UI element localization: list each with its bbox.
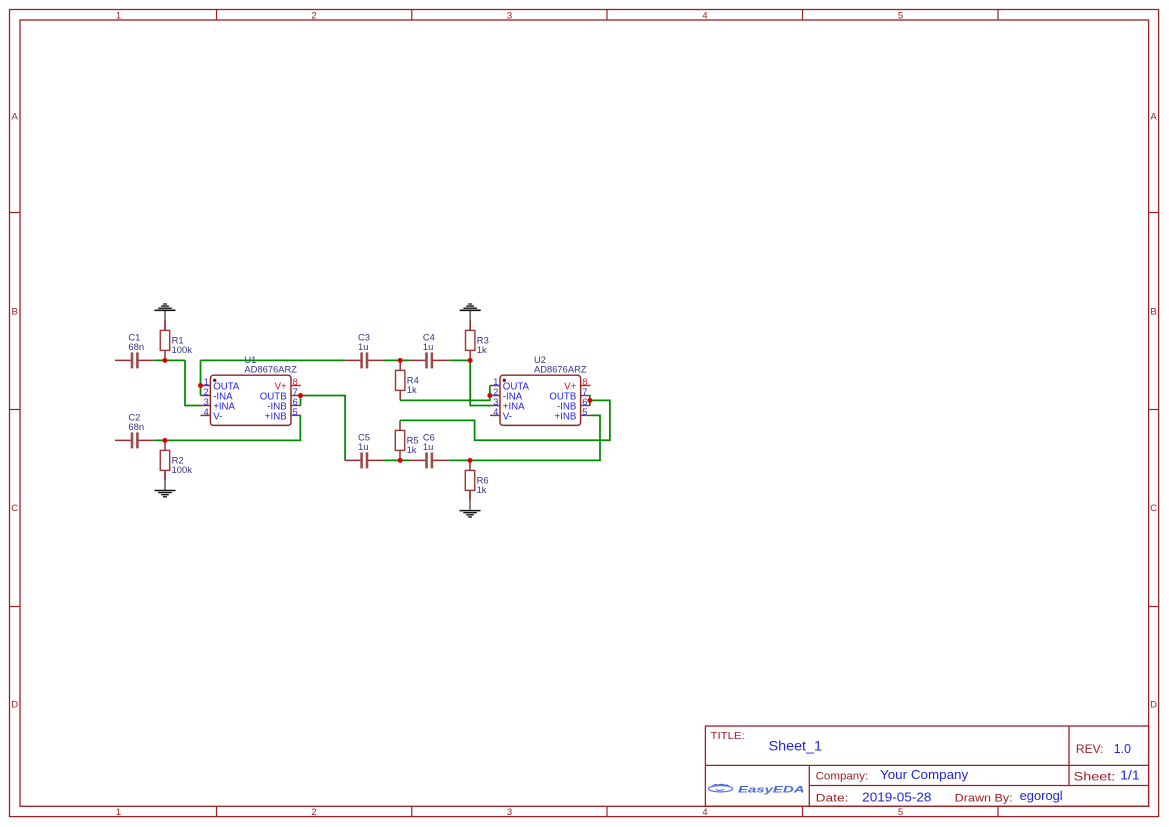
svg-text:REV:: REV: — [1076, 744, 1104, 756]
svg-text:1k: 1k — [407, 444, 417, 455]
row ticks left — [10, 213, 21, 607]
svg-text:Sheet:: Sheet: — [1074, 771, 1116, 783]
resistor R4 — [396, 360, 419, 400]
svg-text:1u: 1u — [423, 441, 433, 452]
wire R3 node to U2 +INA — [470, 360, 491, 405]
svg-text:AD8676ARZ: AD8676ARZ — [244, 364, 297, 375]
ground above R3 — [460, 304, 480, 330]
svg-text:1: 1 — [204, 377, 209, 387]
svg-text:D: D — [11, 699, 18, 710]
op-amp U1 — [201, 354, 301, 425]
ground above R1 — [155, 304, 175, 330]
svg-text:8: 8 — [293, 377, 298, 387]
svg-text:Your Company: Your Company — [880, 768, 969, 782]
junction C5/C6/R5 node — [398, 458, 403, 463]
svg-text:C: C — [11, 503, 18, 514]
wire U2 OUTB to -INB tie — [589, 396, 591, 406]
svg-text:2: 2 — [311, 10, 316, 21]
svg-text:1u: 1u — [358, 441, 368, 452]
wire C2 node to U1 +INB — [154, 415, 300, 440]
wire R6 node to U2 +INB — [470, 415, 600, 460]
junction C2/R2 node — [162, 438, 167, 443]
svg-text:8: 8 — [582, 377, 587, 387]
wire U1 OUTB down to C5 — [301, 396, 346, 461]
svg-text:1: 1 — [116, 807, 121, 818]
column ticks bottom — [217, 806, 999, 816]
wire C3 to C4 — [384, 359, 410, 361]
row labels right — [1150, 111, 1157, 710]
svg-text:68n: 68n — [128, 421, 144, 432]
wire C5 to C6 — [384, 459, 410, 461]
junction U2 pin2 — [487, 393, 492, 398]
svg-text:68n: 68n — [128, 341, 144, 352]
svg-text:5: 5 — [582, 407, 587, 417]
svg-text:V-: V- — [503, 412, 512, 423]
svg-text:1.0: 1.0 — [1114, 742, 1131, 756]
op-amp U2 — [490, 354, 590, 425]
svg-text:A: A — [1150, 111, 1157, 122]
svg-text:5: 5 — [293, 407, 298, 417]
svg-text:7: 7 — [582, 387, 587, 397]
junction U2 right feedback node — [587, 398, 592, 403]
resistor R2 — [160, 440, 192, 480]
svg-text:B: B — [1150, 306, 1156, 317]
svg-text:+INB: +INB — [265, 412, 287, 423]
svg-text:2: 2 — [204, 387, 209, 397]
resistor R3 — [466, 320, 489, 360]
svg-text:Company:: Company: — [816, 770, 869, 782]
svg-text:3: 3 — [204, 397, 209, 407]
wire C1 to R1 junction / input node — [154, 359, 185, 361]
column labels top — [116, 10, 903, 21]
svg-text:1/1: 1/1 — [1120, 769, 1140, 783]
svg-text:2: 2 — [493, 387, 498, 397]
junction C3/C4/R4 node — [398, 358, 403, 363]
svg-text:1k: 1k — [477, 344, 487, 355]
svg-text:V-: V- — [213, 412, 222, 423]
wire U1 OUTB to -INB tie — [300, 396, 302, 406]
svg-text:1: 1 — [116, 10, 121, 21]
capacitor C5 — [345, 432, 384, 469]
svg-text:AD8676ARZ: AD8676ARZ — [534, 364, 587, 375]
svg-text:4: 4 — [702, 807, 707, 818]
svg-text:D: D — [1150, 699, 1157, 710]
capacitor C3 — [345, 332, 384, 369]
capacitor C1 — [115, 332, 154, 369]
svg-text:2: 2 — [311, 807, 316, 818]
svg-text:7: 7 — [293, 387, 298, 397]
column labels bottom — [116, 807, 903, 818]
title block frame — [705, 726, 1148, 806]
svg-text:6: 6 — [293, 397, 298, 407]
svg-text:1k: 1k — [407, 384, 417, 395]
column ticks top — [217, 10, 999, 21]
svg-text:1: 1 — [493, 377, 498, 387]
svg-text:1u: 1u — [358, 341, 368, 352]
svg-text:Sheet_1: Sheet_1 — [769, 738, 823, 754]
wire R4 to U2 OUTA/-INA tie — [400, 386, 490, 401]
wire R5 to U2 OUTB/-INB tie — [400, 400, 610, 440]
svg-text:4: 4 — [204, 407, 209, 417]
svg-text:6: 6 — [582, 397, 587, 407]
svg-text:B: B — [12, 306, 18, 317]
svg-text:1u: 1u — [423, 341, 433, 352]
svg-text:egorogl: egorogl — [1020, 788, 1063, 803]
wire C4 to R3 node — [449, 359, 470, 361]
svg-text:5: 5 — [898, 10, 903, 21]
capacitor C6 — [410, 432, 449, 469]
capacitor C2 — [115, 412, 154, 449]
wire U1 OUTA to -INA tie — [200, 360, 202, 395]
resistor R1 — [160, 320, 192, 360]
ground below R6 — [460, 491, 480, 517]
row ticks right — [1149, 213, 1159, 607]
wire C6 to R6 node — [449, 459, 470, 461]
svg-text:3: 3 — [507, 10, 512, 21]
resistor R5 — [395, 420, 418, 460]
svg-text:C: C — [1150, 503, 1157, 514]
svg-text:5: 5 — [898, 807, 903, 818]
junction C6/R6 node — [468, 458, 473, 463]
svg-text:3: 3 — [507, 807, 512, 818]
svg-text:100k: 100k — [172, 344, 193, 355]
resistor R6 — [465, 460, 488, 500]
svg-text:+INB: +INB — [554, 412, 576, 423]
svg-text:TITLE:: TITLE: — [711, 731, 745, 742]
svg-text:A: A — [12, 111, 19, 122]
junction C4/R3 node — [468, 358, 473, 363]
junction U1 pin1 — [198, 383, 203, 388]
row labels left — [11, 111, 18, 710]
svg-text:Date:: Date: — [816, 792, 849, 804]
svg-text:4: 4 — [493, 407, 498, 417]
svg-text:100k: 100k — [172, 464, 193, 475]
junction U1 pin7 — [298, 393, 303, 398]
ground below R2 — [155, 470, 175, 496]
junction C1/R1 node — [162, 358, 167, 363]
svg-text:1k: 1k — [477, 484, 487, 495]
EasyEDA logo — [708, 784, 804, 794]
capacitor C4 — [410, 332, 449, 369]
svg-text:EasyEDA: EasyEDA — [738, 784, 805, 794]
svg-text:2019-05-28: 2019-05-28 — [862, 789, 931, 804]
wire input to U1 +INA — [185, 360, 201, 405]
svg-text:Drawn By:: Drawn By: — [955, 792, 1013, 804]
svg-text:3: 3 — [493, 397, 498, 407]
svg-text:4: 4 — [702, 10, 707, 21]
wire U1 OUTA to C3 — [201, 359, 345, 361]
